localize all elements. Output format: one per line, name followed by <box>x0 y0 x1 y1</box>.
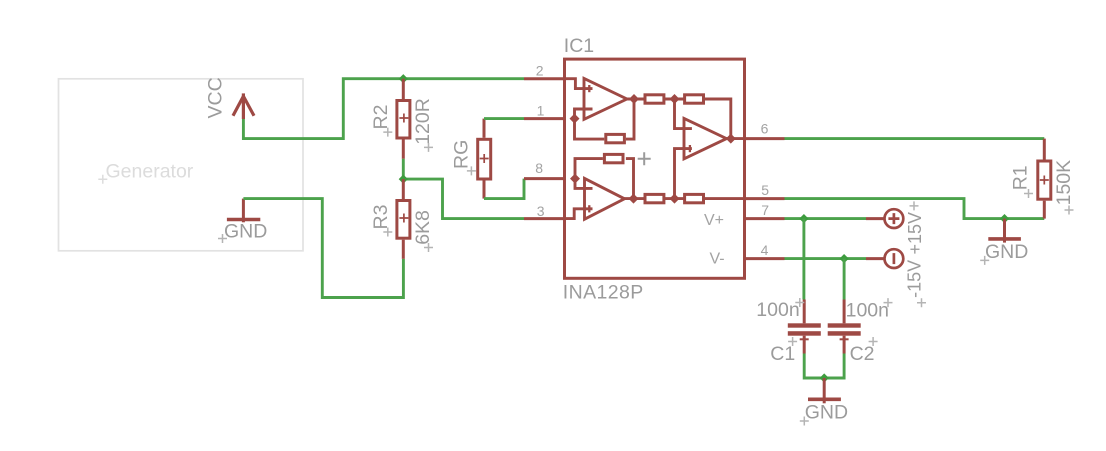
value 120R <box>412 98 434 152</box>
wire pin 6 to R1 top <box>785 137 1045 140</box>
resistor R2 <box>397 79 410 159</box>
label +15V <box>905 201 925 254</box>
resistor RG <box>478 119 491 199</box>
capacitor C2 <box>828 300 861 354</box>
node A1 output junction <box>629 94 639 104</box>
symbol origin cross of IC1 <box>638 152 651 165</box>
node junction R2 top (pin2/VCC net) <box>399 74 408 83</box>
label R1 <box>1009 165 1033 198</box>
svg-text:VCC: VCC <box>205 77 227 118</box>
svg-text:GND: GND <box>805 402 848 424</box>
capacitor C1 <box>788 300 821 354</box>
wire VCC net: VCC symbol to pin 2 of IC1 <box>243 79 524 139</box>
svg-text:R1: R1 <box>1009 165 1031 190</box>
value 100n (C2) <box>846 298 893 321</box>
internal resistor Rc (bottom row left) <box>625 194 664 202</box>
svg-text:8: 8 <box>535 160 543 176</box>
node pin8 internal junction <box>570 174 580 184</box>
pin 4 stub <box>745 257 785 260</box>
svg-text:7: 7 <box>761 202 769 218</box>
svg-text:150K: 150K <box>1053 160 1075 206</box>
wire C1/C2 bottoms to ground <box>804 354 844 379</box>
svg-text:100n: 100n <box>756 299 799 321</box>
svg-text:+15V: +15V <box>905 212 925 255</box>
label R2 <box>370 105 392 137</box>
op-amp A1 (input buffer top) <box>565 78 627 119</box>
pin 5 stub <box>745 197 785 200</box>
svg-text:6K8: 6K8 <box>412 210 434 245</box>
label GND (generator) <box>218 221 267 243</box>
Generator frame box <box>59 79 304 251</box>
svg-text:Generator: Generator <box>106 160 194 182</box>
wire RG bottom to pin 8 <box>484 179 524 199</box>
svg-text:120R: 120R <box>412 98 434 145</box>
node junction pin7/C1 <box>799 214 808 223</box>
wire pin 5 to R1 bottom <box>785 199 1045 219</box>
svg-text:1: 1 <box>537 102 545 118</box>
label VCC <box>205 77 227 118</box>
svg-text:R3: R3 <box>370 205 392 230</box>
node pin1 internal junction <box>570 114 580 124</box>
svg-text:-15V: -15V <box>905 260 925 298</box>
svg-text:GND: GND <box>224 221 267 243</box>
ground GND (bottom) <box>808 378 841 403</box>
node junction pin4/C2 <box>840 254 849 263</box>
svg-text:R2: R2 <box>370 105 392 130</box>
pin 1 stub <box>524 117 565 120</box>
label C2 <box>850 337 878 365</box>
svg-text:IC1: IC1 <box>564 35 594 57</box>
svg-text:5: 5 <box>761 182 769 198</box>
pin 8 stub <box>524 177 565 180</box>
pin 3 stub <box>524 217 565 220</box>
resistor R1 <box>1038 139 1051 219</box>
wire junction to C2 <box>843 259 846 300</box>
node junction R1 bottom / GND <box>1000 214 1009 223</box>
wire GND net: generator GND to R3 bottom <box>243 199 403 298</box>
svg-text:3: 3 <box>537 203 545 219</box>
value 150K <box>1053 160 1075 215</box>
svg-text:4: 4 <box>761 242 769 258</box>
label R3 <box>370 205 392 237</box>
svg-text:GND: GND <box>985 241 1028 263</box>
supply symbol +15V <box>866 209 903 228</box>
internal resistor Rb (top row right) <box>685 95 731 139</box>
pin 6 stub <box>745 137 785 140</box>
value 100n (C1) <box>756 298 804 321</box>
internal resistor Rd (bottom row right) <box>685 194 745 202</box>
label C1 <box>770 337 797 365</box>
svg-text:RG: RG <box>451 140 473 169</box>
feedback resistor of A1 <box>575 99 635 143</box>
node bottom row junction <box>664 194 685 204</box>
svg-text:V+: V+ <box>704 212 724 229</box>
wire junction to C1 <box>802 219 805 300</box>
node junction capacitor ground <box>820 373 829 382</box>
label RG <box>451 140 476 176</box>
wire pin 7 to +15V supply <box>785 217 867 220</box>
label GND (right) <box>980 241 1028 265</box>
svg-text:6: 6 <box>761 120 769 136</box>
value 6K8 <box>412 210 434 252</box>
supply symbol VCC <box>233 93 254 119</box>
op-amp A2 (input buffer bottom) <box>565 178 625 219</box>
wire RG top to pin 1 <box>484 117 524 120</box>
wire pin 4 to -15V supply <box>785 257 867 260</box>
supply symbol -15V <box>866 249 903 268</box>
node A3 output junction <box>726 134 736 144</box>
svg-text:2: 2 <box>536 63 544 79</box>
label -15V <box>905 260 927 307</box>
feedback resistor of A2 <box>575 154 634 198</box>
resistor R3 <box>397 179 410 259</box>
node A2 output junction <box>629 194 639 204</box>
node top row junction <box>664 94 685 104</box>
svg-text:V-: V- <box>710 251 725 268</box>
pin 2 stub <box>524 77 565 80</box>
node junction R2/R3 midpoint <box>399 175 408 184</box>
wire net between R2 and R3 <box>403 159 524 219</box>
ground GND (generator) <box>227 199 260 223</box>
ground GND (right) <box>988 219 1021 243</box>
op-amp A3 (output amplifier) <box>675 99 745 199</box>
pin 7 stub <box>745 217 785 220</box>
label GND (bottom) <box>800 402 848 426</box>
svg-text:INA128P: INA128P <box>563 282 644 304</box>
internal resistor Ra (top row left) <box>627 95 664 103</box>
IC1 outline box <box>565 59 745 278</box>
svg-text:100n: 100n <box>846 299 889 321</box>
svg-text:C2: C2 <box>850 343 875 365</box>
svg-text:C1: C1 <box>770 343 795 365</box>
